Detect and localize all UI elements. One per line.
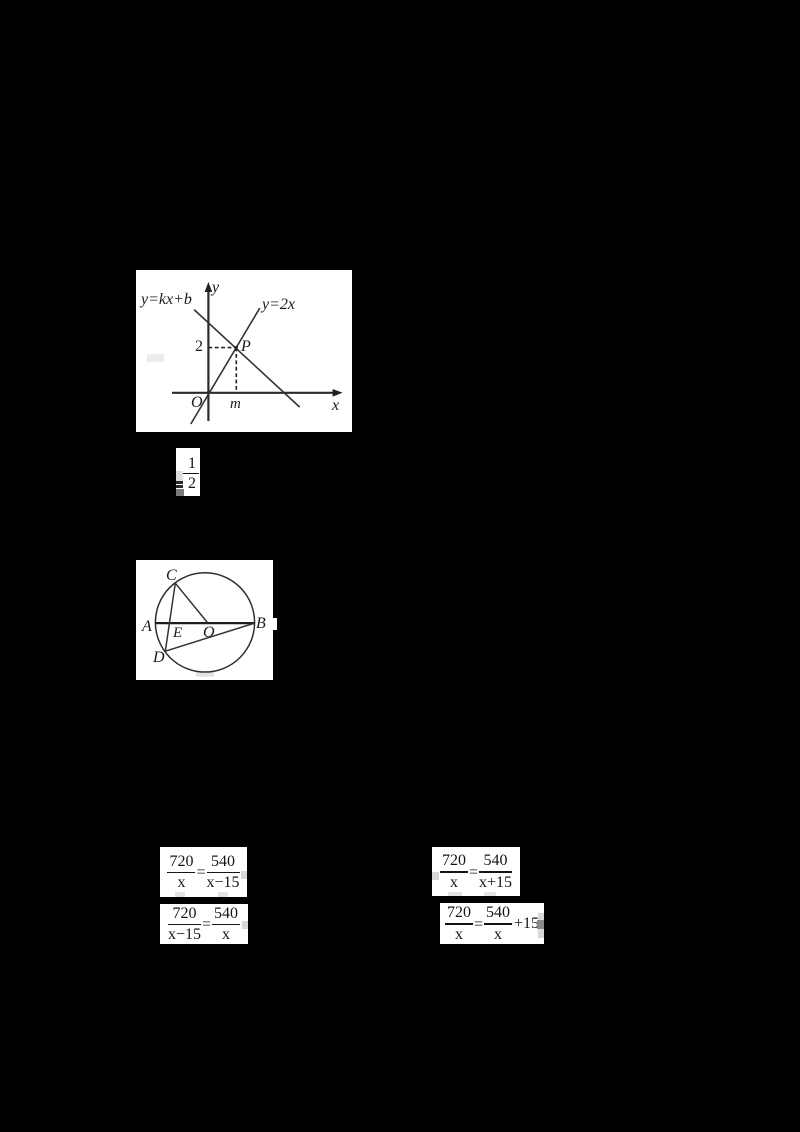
chord CD (165, 583, 175, 651)
circle O (155, 573, 254, 672)
equation 720/x = 540/x + 15 (440, 903, 544, 944)
white tab right of B (273, 618, 277, 630)
circle figure white panel (136, 560, 273, 680)
line y=2x (191, 308, 260, 424)
label O (191, 395, 203, 411)
label y (axis) (212, 280, 219, 296)
label m (230, 397, 241, 412)
fraction one-half white panel (176, 448, 200, 496)
dashed line P to x-axis (235, 348, 237, 393)
point P dot (235, 346, 238, 349)
equation 720/x = 540/(x+15) (432, 847, 520, 896)
grey patch left (176, 471, 183, 481)
label C (166, 568, 177, 584)
label y=kx+b (141, 292, 192, 308)
grey smudge artifact (147, 354, 164, 362)
label E (173, 626, 182, 641)
line y=kx+b (194, 310, 300, 408)
equals sign fragment (176, 481, 183, 484)
grey artifact right (241, 871, 247, 879)
graph figure white panel (136, 270, 352, 432)
denominator 2 (184, 476, 200, 492)
y-axis (207, 286, 209, 421)
equation 720/x = 540/(x-15) (160, 847, 247, 897)
label P (241, 339, 251, 355)
numerator 1 (184, 456, 200, 472)
label y=2x (262, 297, 295, 313)
label D (153, 650, 165, 666)
diameter AB (155, 622, 254, 624)
label 2 (195, 339, 203, 355)
label B (256, 616, 266, 632)
label A (142, 619, 152, 635)
label x (axis) (332, 398, 339, 414)
fraction bar (183, 473, 199, 475)
chord DB (165, 623, 254, 651)
dashed line P to y-axis (208, 347, 236, 349)
equation 720/(x-15) = 540/x (160, 904, 248, 944)
radius CO (175, 583, 207, 622)
x-axis (172, 392, 338, 394)
label O (203, 625, 215, 641)
dark grey block (176, 489, 184, 496)
grey patch bottom (196, 672, 214, 677)
